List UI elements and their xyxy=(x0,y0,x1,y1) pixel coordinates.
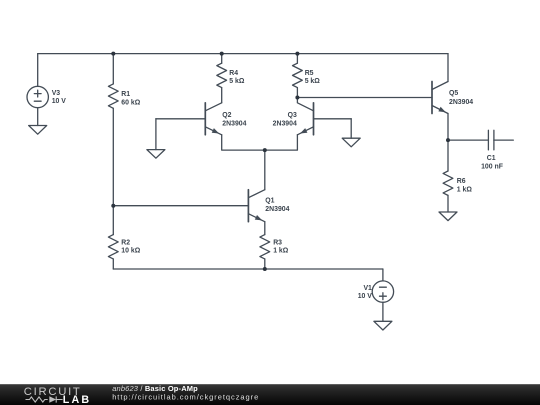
wire R6 to ground xyxy=(447,195,449,212)
wire top supply rail xyxy=(38,53,448,55)
wire Q3 base xyxy=(314,118,352,120)
svg-text:100 nF: 100 nF xyxy=(481,164,503,171)
wire R4 leads xyxy=(221,54,223,103)
svg-text:V3: V3 xyxy=(52,90,61,97)
capacitor C1 xyxy=(488,130,494,150)
node R5 bottom / Q5 base xyxy=(295,96,299,100)
wire Q1 base xyxy=(113,205,248,207)
svg-text:R2: R2 xyxy=(121,240,130,247)
wire Q5 emitter to output node xyxy=(447,114,449,141)
resistor R6 xyxy=(443,171,453,195)
wire C1 right lead xyxy=(494,139,513,141)
svg-text:Q1: Q1 xyxy=(265,197,274,204)
node R3 bottom xyxy=(263,267,267,271)
svg-text:Q2: Q2 xyxy=(222,112,231,119)
svg-text:2N3904: 2N3904 xyxy=(265,206,289,213)
svg-text:2N3904: 2N3904 xyxy=(222,120,246,127)
voltage source V1 xyxy=(372,281,393,302)
svg-text:10 kΩ: 10 kΩ xyxy=(121,248,140,255)
wire bottom rail xyxy=(113,268,383,270)
wire Q3 emitter to common node xyxy=(265,135,298,150)
svg-text:Q3: Q3 xyxy=(288,112,297,119)
svg-text:C1: C1 xyxy=(487,155,496,162)
ground below R6 xyxy=(439,212,457,221)
wire Q2 base to ground xyxy=(155,119,157,150)
svg-text:10 V: 10 V xyxy=(52,98,67,105)
resistor R3 xyxy=(260,235,270,259)
wire V1 to ground xyxy=(382,302,384,321)
resistor R4 xyxy=(217,63,227,87)
ground at Q2 base xyxy=(147,150,165,159)
wire R5 bottom to Q5 base xyxy=(297,97,432,99)
resistor R1 xyxy=(108,84,118,108)
wire Q2 emitter to common node xyxy=(222,135,265,150)
svg-text:2N3904: 2N3904 xyxy=(449,99,473,106)
svg-text:R4: R4 xyxy=(229,70,238,77)
wire Q1 emitter to R3 xyxy=(264,222,266,235)
logo resistor zigzag and diode xyxy=(26,396,63,402)
wire output node to C1 xyxy=(448,139,488,141)
svg-text:R6: R6 xyxy=(457,178,466,185)
wire R1 R2 column xyxy=(112,54,114,269)
svg-text:R5: R5 xyxy=(305,70,314,77)
transistor Q5 xyxy=(431,82,433,114)
wire R5 leads xyxy=(296,54,298,98)
svg-text:5 kΩ: 5 kΩ xyxy=(229,78,245,85)
wire Q5 collector to top rail xyxy=(447,54,449,82)
wire R3 to bottom rail xyxy=(264,259,266,269)
node R1 top xyxy=(111,52,115,56)
wire output node to R6 xyxy=(447,140,449,171)
svg-text:LAB: LAB xyxy=(63,394,92,405)
svg-text:V1: V1 xyxy=(363,285,372,292)
svg-text:5 kΩ: 5 kΩ xyxy=(305,78,321,85)
svg-text:R1: R1 xyxy=(121,91,130,98)
node Q5 emitter output xyxy=(446,138,450,142)
voltage source V3 xyxy=(27,86,48,107)
wire rail to V1 xyxy=(382,269,384,281)
node R5 top xyxy=(295,52,299,56)
svg-text:1 kΩ: 1 kΩ xyxy=(457,186,473,193)
node Q1 base tap xyxy=(111,204,115,208)
svg-text:1 kΩ: 1 kΩ xyxy=(273,248,289,255)
ground at Q3 base xyxy=(342,138,360,147)
svg-text:http://circuitlab.com/ckgretqc: http://circuitlab.com/ckgretqczagre xyxy=(112,392,259,401)
transistor Q1 xyxy=(247,190,249,222)
node emitters common xyxy=(263,148,267,152)
svg-text:R3: R3 xyxy=(273,240,282,247)
resistor R5 xyxy=(293,63,303,87)
ground below V1 xyxy=(374,321,392,330)
transistor Q2 xyxy=(204,103,206,135)
wire Q3 base to ground xyxy=(350,119,352,138)
resistor R2 xyxy=(108,235,118,259)
ground below V3 xyxy=(29,126,47,135)
node R4 top xyxy=(220,52,224,56)
svg-text:2N3904: 2N3904 xyxy=(273,120,297,127)
wire V3 to ground xyxy=(37,108,39,126)
wire V3 to top rail xyxy=(37,54,39,87)
wire Q2 base xyxy=(156,118,205,120)
svg-text:60 kΩ: 60 kΩ xyxy=(121,99,140,106)
svg-text:10 V: 10 V xyxy=(358,293,373,300)
transistor Q3 xyxy=(313,103,315,135)
wire common node to Q1 collector xyxy=(264,150,266,190)
svg-text:Q5: Q5 xyxy=(449,90,458,97)
